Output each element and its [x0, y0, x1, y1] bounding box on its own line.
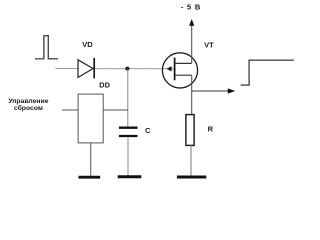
wire: pulse to diode anode: [55, 68, 78, 70]
transistor VT source stub: [175, 74, 192, 76]
wire: drain to -5V supply: [191, 25, 193, 64]
wire: capacitor to ground: [127, 137, 129, 175]
node A junction dot: [125, 67, 129, 71]
svg-text:- 5 В: - 5 В: [181, 3, 201, 12]
diode VD: [78, 60, 93, 78]
output step waveform: [241, 60, 294, 85]
wire: DD block to ground: [90, 143, 92, 176]
transistor VT gate arrow: [167, 66, 172, 71]
ground under capacitor: [118, 175, 142, 178]
output arrowhead: [228, 88, 235, 93]
block DD: [78, 94, 103, 143]
transistor VT circle: [162, 53, 197, 88]
wire: node A down to capacitor: [127, 69, 129, 127]
transistor VT drain stub: [175, 62, 192, 64]
wire: diode cathode to transistor gate: [94, 68, 174, 70]
ground under DD: [79, 176, 101, 179]
ground under resistor: [177, 176, 206, 179]
capacitor C: [119, 127, 138, 129]
input pulse waveform: [35, 36, 58, 59]
svg-text:DD: DD: [99, 80, 110, 89]
wire: DD block to capacitor node: [103, 109, 128, 111]
wire: source down to resistor: [191, 75, 193, 115]
svg-text:сбросом: сбросом: [14, 104, 43, 112]
svg-text:VD: VD: [82, 40, 93, 49]
supply arrowhead: [189, 19, 194, 26]
svg-text:R: R: [208, 124, 214, 133]
wire: resistor to ground: [190, 145, 192, 175]
svg-text:C: C: [145, 126, 151, 135]
transistor VT channel bar: [174, 58, 176, 81]
wire: input to DD block: [62, 109, 78, 111]
svg-text:VT: VT: [204, 41, 214, 50]
resistor R: [186, 115, 194, 146]
wire: output arrow: [192, 90, 229, 92]
